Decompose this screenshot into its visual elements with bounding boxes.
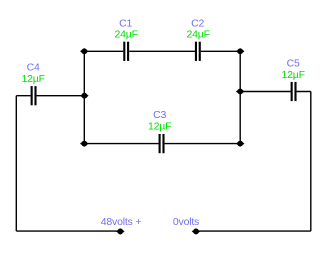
svg-text:C5: C5 (287, 58, 300, 70)
svg-text:C3: C3 (153, 109, 166, 121)
svg-text:0volts: 0volts (173, 216, 199, 228)
svg-text:12µF: 12µF (282, 69, 305, 81)
svg-text:48volts +: 48volts + (101, 216, 142, 228)
svg-text:12µF: 12µF (22, 73, 45, 85)
svg-text:12µF: 12µF (148, 121, 171, 133)
svg-text:24µF: 24µF (115, 29, 138, 41)
svg-text:24µF: 24µF (187, 29, 210, 41)
svg-text:C4: C4 (27, 62, 40, 74)
